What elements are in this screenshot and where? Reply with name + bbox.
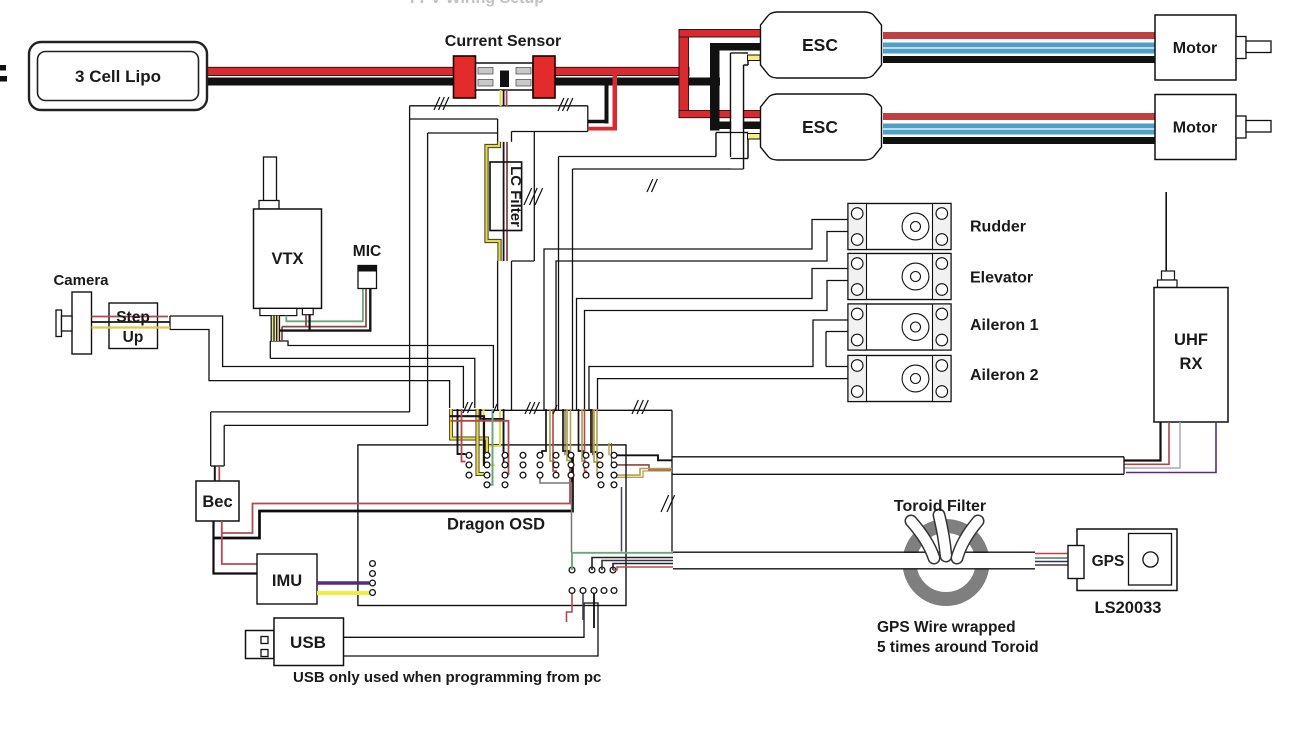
svg-text:Motor: Motor [1173,120,1217,137]
svg-text:USB only used when programming: USB only used when programming from pc [293,669,601,686]
svg-text:Current Sensor: Current Sensor [445,33,561,50]
svg-text:Step: Step [116,309,150,326]
svg-text:5 times around Toroid: 5 times around Toroid [877,639,1039,656]
svg-text:ESC: ESC [802,35,838,55]
svg-text:Camera: Camera [53,272,109,289]
svg-text:Dragon OSD: Dragon OSD [447,516,545,534]
svg-text:RX: RX [1180,355,1203,373]
svg-text:Toroid Filter: Toroid Filter [894,498,986,515]
svg-text:USB: USB [290,633,326,652]
svg-text:Motor: Motor [1173,40,1217,57]
svg-text:VTX: VTX [271,250,303,268]
svg-text:Rudder: Rudder [970,219,1026,236]
svg-text:ESC: ESC [802,117,838,137]
svg-text:FPV Wiring Setup: FPV Wiring Setup [410,0,544,7]
svg-text:UHF: UHF [1174,331,1208,349]
svg-text:GPS: GPS [1092,553,1125,570]
svg-text:Aileron 1: Aileron 1 [970,317,1039,334]
svg-text:3 Cell Lipo: 3 Cell Lipo [75,67,161,86]
svg-text:Up: Up [123,329,144,346]
svg-text:Bec: Bec [202,493,232,511]
svg-text:LC Filter: LC Filter [507,166,524,227]
svg-text:LS20033: LS20033 [1095,599,1162,617]
svg-text:MIC: MIC [353,243,381,260]
svg-text:Elevator: Elevator [970,270,1033,287]
svg-text:IMU: IMU [272,572,302,590]
svg-text:Aileron 2: Aileron 2 [970,367,1039,384]
svg-text:GPS Wire wrapped: GPS Wire wrapped [877,619,1016,636]
